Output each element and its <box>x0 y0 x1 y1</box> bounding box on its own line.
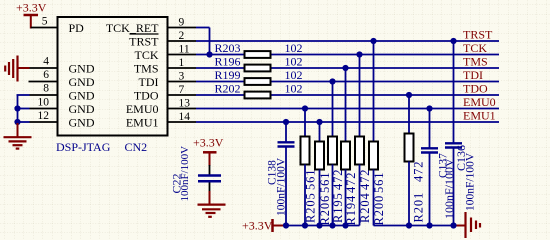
svg-text:TDO: TDO <box>134 89 159 103</box>
svg-text:102: 102 <box>285 82 303 96</box>
svg-text:472: 472 <box>331 169 345 190</box>
svg-text:5: 5 <box>42 16 48 28</box>
svg-text:8: 8 <box>43 83 49 95</box>
svg-text:472: 472 <box>358 169 372 190</box>
svg-text:TDI: TDI <box>463 68 483 82</box>
svg-text:102: 102 <box>285 41 303 55</box>
svg-text:472: 472 <box>344 172 358 193</box>
svg-text:9: 9 <box>179 17 185 29</box>
svg-text:472: 472 <box>412 161 426 182</box>
svg-text:R206: R206 <box>318 195 332 226</box>
svg-text:TCK: TCK <box>135 48 159 62</box>
svg-text:R204: R204 <box>358 192 372 223</box>
svg-text:TDI: TDI <box>139 75 159 89</box>
svg-text:561: 561 <box>372 172 386 193</box>
svg-text:GND: GND <box>69 116 95 130</box>
svg-text:R203: R203 <box>215 41 241 55</box>
svg-text:+3.3V: +3.3V <box>242 219 273 233</box>
svg-text:DSP-JTAG: DSP-JTAG <box>56 140 111 154</box>
svg-text:TRST: TRST <box>129 35 159 49</box>
svg-text:CN2: CN2 <box>125 140 148 154</box>
svg-text:561: 561 <box>304 169 318 190</box>
svg-text:4: 4 <box>43 56 49 68</box>
svg-text:GND: GND <box>69 75 95 89</box>
svg-text:14: 14 <box>179 111 191 123</box>
svg-text:TCK_RET: TCK_RET <box>106 21 159 35</box>
svg-text:TRST: TRST <box>463 28 493 42</box>
svg-text:+3.3V: +3.3V <box>193 136 224 150</box>
svg-text:EMU0: EMU0 <box>463 95 496 109</box>
svg-text:GND: GND <box>69 89 95 103</box>
svg-text:TCK: TCK <box>463 41 487 55</box>
svg-text:R199: R199 <box>215 68 241 82</box>
svg-text:R205: R205 <box>304 192 318 223</box>
svg-text:100nF/100V: 100nF/100V <box>179 146 191 202</box>
svg-text:13: 13 <box>179 98 191 110</box>
svg-text:EMU0: EMU0 <box>126 102 159 116</box>
svg-text:R200: R200 <box>372 195 386 226</box>
svg-text:GND: GND <box>69 102 95 116</box>
svg-text:6: 6 <box>43 69 49 81</box>
svg-text:102: 102 <box>285 55 303 69</box>
svg-text:10: 10 <box>38 97 50 109</box>
svg-text:EMU1: EMU1 <box>463 109 496 123</box>
svg-text:3: 3 <box>179 71 185 83</box>
svg-text:2: 2 <box>179 30 185 42</box>
svg-text:R196: R196 <box>215 55 241 69</box>
svg-text:R201: R201 <box>412 192 426 223</box>
svg-text:561: 561 <box>318 172 332 193</box>
svg-text:100nF/100V: 100nF/100V <box>276 157 288 216</box>
svg-text:7: 7 <box>179 84 185 96</box>
svg-text:PD: PD <box>69 21 85 35</box>
svg-text:R195: R195 <box>331 192 345 223</box>
svg-text:102: 102 <box>285 68 303 82</box>
svg-text:11: 11 <box>179 44 190 56</box>
svg-text:TMS: TMS <box>134 62 159 76</box>
svg-text:1: 1 <box>179 57 185 69</box>
svg-text:TMS: TMS <box>463 55 488 69</box>
svg-text:GND: GND <box>69 62 95 76</box>
svg-text:R202: R202 <box>215 82 241 96</box>
svg-text:R194: R194 <box>344 195 358 226</box>
svg-text:EMU1: EMU1 <box>126 116 159 130</box>
svg-text:100nF/100V: 100nF/100V <box>465 152 477 211</box>
svg-text:+3.3V: +3.3V <box>16 1 47 15</box>
svg-text:TDO: TDO <box>463 82 488 96</box>
svg-text:12: 12 <box>38 110 50 122</box>
